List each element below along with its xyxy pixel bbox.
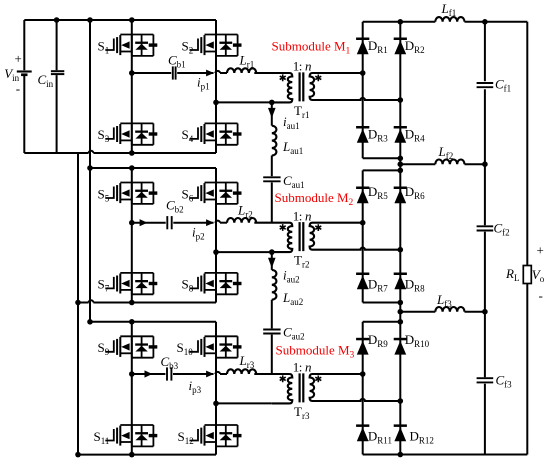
svg-text:Cf1: Cf1 [495,77,511,94]
svg-text:Lf3: Lf3 [436,292,452,309]
svg-text:Cau2: Cau2 [283,324,305,341]
node: right leg switch node M1 [213,100,219,106]
wire: rectifier 2 left leg [362,170,364,302]
diode DR3 [356,126,369,143]
svg-text:Lr1: Lr1 [239,52,255,69]
svg-text:+: + [15,51,22,66]
diode DR9 [356,338,369,355]
svg-text:Submodule M3: Submodule M3 [276,343,355,361]
svg-text:n: n [305,208,312,223]
inductor Lr2 (resonant) [227,218,256,223]
polarity dot (asterisk) Tr2 secondary [315,224,321,231]
node: Lau1 chain tap on M1 primary-bottom [269,100,275,106]
wire: M2 bridge right leg [215,168,217,303]
wire: Lf3 line from stack mid-node 2 [400,311,435,313]
wire: M1 bottom rail (input minus) with hop over plus-bus [24,152,88,154]
node: rect 2 bottom rail / right leg junction [398,300,404,306]
diode DR4 [394,126,407,143]
svg-text:Submodule M1: Submodule M1 [272,38,351,56]
wire: module M2 bottom rail with hop [78,302,89,304]
diode DR6 [394,187,407,204]
svg-text:Cb3: Cb3 [161,354,179,371]
wire: M1 primary-bottom return to right leg switch node [216,101,272,103]
inductor Lau2 (auxiliary) [272,270,277,300]
polarity dot (asterisk) Tr1 primary [280,74,286,81]
svg-text:S5: S5 [98,186,110,203]
capacitor Cb3 (blocking) [166,367,168,380]
diode DR7 [356,273,369,290]
svg-text:-: - [539,288,543,303]
node: left leg / top rail junction M2 [129,165,135,171]
svg-text:S9: S9 [98,340,110,357]
node: secondary-bottom junction on right leg (rect 3) [398,398,404,404]
svg-text::: : [299,360,303,375]
wire: M3 bridge right leg [215,322,217,455]
node: plus bus top junction [87,17,93,23]
svg-text:Lf1: Lf1 [441,1,457,18]
inductor Lf2 (filter) [435,160,464,165]
node: left leg / bottom rail junction M2 [129,300,135,306]
svg-text:DR9: DR9 [368,332,388,349]
wire: module M2 top rail [90,167,216,169]
node: Cin top junction [54,17,60,23]
wire: plus bus vertical [89,20,91,322]
wire: module M3 top rail [90,321,216,323]
wire: primary line hop over right leg M1 [220,72,227,74]
capacitor Cb1 (blocking) [172,66,174,79]
svg-text:DR2: DR2 [405,38,425,55]
inductor Lf3 (filter) [435,307,464,312]
capacitor Cf2 (output filter) [477,225,494,227]
wire: rectifier 1 top rail / output plus rail with Lf1 [363,21,436,23]
wire: M2 primary-bottom return to right leg switch node [216,251,272,253]
capacitor Cau1 (auxiliary) [263,176,280,178]
wire: auxiliary chain vertical M2-M3 [271,252,273,270]
node: right leg switch node M3 [213,401,219,407]
capacitor Cau2 (auxiliary) [263,329,280,331]
wire: M1 primary line from left leg switch node [132,72,171,74]
wire: chain between Lau1 and Cau1 [271,156,273,177]
current direction arrow on M2 primary line [140,219,148,226]
wire: rectifier 2 bottom rail [363,302,401,304]
capacitor Cin [56,20,58,70]
transistor S2 [190,35,242,56]
node: secondary-bottom junction on right leg (rect 2) [398,247,404,253]
svg-text:Lr2: Lr2 [237,202,253,219]
svg-text:DR12: DR12 [410,428,434,445]
transformer Tr3 [254,373,400,403]
svg-text:S4: S4 [182,127,194,144]
node: rect 3 bottom rail / right leg junction [398,452,404,458]
node: right leg switch node M2 [213,249,219,255]
svg-text:Tr2: Tr2 [294,253,309,270]
node: Lf2 tap on right leg [398,161,404,167]
svg-text:Lf2: Lf2 [438,144,454,161]
wire: M3 primary-bottom return to right leg switch node [216,402,272,404]
transistor S7 [105,273,157,294]
current direction arrow on M3 primary line [145,370,153,377]
transistor S8 [190,273,242,294]
node: left leg / top rail junction M1 [129,17,135,23]
polarity dot (asterisk) Tr3 primary [280,375,286,382]
svg-text:S12: S12 [178,429,194,446]
wire: M3 primary line from left leg switch node [132,373,166,375]
wire: auxiliary chain vertical M1-M2 [271,102,273,125]
voltage source Vin [23,20,25,70]
node: left leg / bottom rail junction M1 [129,150,135,156]
svg-text:-: - [16,81,20,96]
diode DR1 [356,38,369,55]
svg-text:Lau2: Lau2 [282,290,303,307]
node: left leg switch node M1 [129,70,135,76]
current arrow ip1 [206,70,214,77]
svg-text:Lr3: Lr3 [239,353,255,370]
current arrow ip2 [206,219,214,226]
current arrow iau1 [268,108,276,118]
diode DR2 [394,38,407,55]
svg-text:Lau1: Lau1 [282,139,303,156]
svg-text:S11: S11 [94,429,110,446]
wire: chain between Lau2 and Cau2 [271,300,273,329]
node: left leg switch node M3 [129,371,135,377]
transistor S6 [190,183,242,204]
wire: rectifier right leg (continuous vertical) [399,22,401,455]
wire: M2 primary line from left leg switch node [132,222,166,224]
node: rect 3 top rail / right leg junction [398,319,404,325]
svg-text:DR4: DR4 [405,126,425,143]
wire: rectifier 2 top rail [363,169,401,171]
svg-text:Submodule M2: Submodule M2 [275,190,354,208]
wire: rectifier 1 bottom rail [363,157,401,159]
capacitor Cf3 (output filter) [477,377,494,379]
wire: rectifier 3 top rail [363,321,401,323]
wire: minus bus (left vertical feeding all modules) [77,153,79,455]
current arrow iau2 [268,258,276,268]
node: Lf1 output node [482,19,488,25]
diode DR10 [394,338,407,355]
svg-text:Vo: Vo [532,267,545,284]
svg-text:iau2: iau2 [283,268,300,285]
svg-text:Tr3: Tr3 [294,404,310,421]
transistor S1 (MOSFET with body diode) [105,35,157,56]
transistor S5 (MOSFET with body diode) [105,183,157,204]
svg-text:S2: S2 [182,38,194,55]
svg-text:ip3: ip3 [189,378,202,395]
wire: rectifier 1 left leg [362,22,364,159]
transistor S10 [190,336,242,357]
capacitor Cf1 (output filter) [477,82,494,84]
transistor S11 [105,425,157,446]
inductor Lau1 (auxiliary) [272,126,277,156]
svg-text:ip2: ip2 [192,225,205,242]
capacitor Cb2 (blocking) [166,216,168,229]
wire: M3 bridge left leg [131,322,133,455]
svg-text:+: + [537,243,544,258]
transistor S3 [105,123,157,144]
node: secondary-top junction on left leg (rect 2) [360,220,366,226]
wire: output minus wire from load [526,284,528,455]
node: DR2 cathode on top rail [398,19,404,25]
node: secondary-bottom junction on right leg (rect 1) [398,97,404,103]
svg-text:DR1: DR1 [368,38,388,55]
svg-text::: : [299,208,303,223]
node: secondary-top junction on left leg (rect 1) [360,70,366,76]
wire: chain from Cau1 to M2 primary line [271,182,273,222]
svg-text:DR10: DR10 [405,332,430,349]
svg-text:n: n [305,360,312,375]
svg-text::: : [299,59,303,74]
node: left leg / top rail junction M3 [129,319,135,325]
transformer Tr2 [254,222,400,252]
node: plus bus / M2 top rail junction [87,165,93,171]
wire: input top rail (Vin+ to module M1 bridge) [24,19,216,21]
node: left leg switch node M2 [129,220,135,226]
svg-text:RL: RL [505,266,519,283]
svg-text:ip1: ip1 [197,75,210,92]
transistor S9 (MOSFET with body diode) [105,336,157,357]
wire: rectifier 3 left leg [362,322,364,455]
inductor Lf1 (filter) [435,17,464,22]
current arrow ip3 [206,371,214,378]
node: Lf3 output node [482,309,488,315]
node: rect 1 bottom rail / right leg junction [398,156,404,162]
wire: rectifier 3 bottom rail / output minus rail [363,454,528,456]
node: secondary-top junction on left leg (rect 3) [360,371,366,377]
node: Lau2 chain tap on M2 primary-bottom [269,249,275,255]
diode DR8 [394,273,407,290]
node: Lf3 tap on right leg [398,309,404,315]
wire: M1 bridge left leg [131,20,133,153]
svg-text:S10: S10 [177,340,194,357]
node: minus bus / M3 bottom rail junction [75,452,81,458]
svg-text:n: n [305,59,312,74]
svg-text:S8: S8 [182,277,194,294]
svg-text:S6: S6 [182,186,194,203]
svg-text:DR11: DR11 [368,428,392,445]
svg-text:S1: S1 [98,38,110,55]
diode DR12 [394,424,407,441]
diode DR11 [356,424,369,441]
transistor S4 [190,123,242,144]
svg-text:S7: S7 [98,277,110,294]
svg-text:DR8: DR8 [405,276,425,293]
wire: output capacitor stack vertical [484,22,486,81]
polarity dot (asterisk) Tr2 primary [280,224,286,231]
wire: M1 bridge right leg [215,20,217,153]
wire: primary line hop over right leg M2 [220,222,227,224]
svg-text:S3: S3 [98,127,110,144]
wire: chain from Cau2 to M3 primary line [271,335,273,374]
wire: Lf2 line from stack mid-node 1 [400,163,435,165]
polarity dot (asterisk) Tr1 secondary [315,75,321,82]
polarity dot (asterisk) Tr3 secondary [315,376,321,383]
transistor S12 [190,425,242,446]
svg-text:Tr1: Tr1 [294,103,309,120]
svg-text:DR7: DR7 [368,276,388,293]
diode DR5 [356,187,369,204]
svg-text:DR6: DR6 [405,184,425,201]
wire: M2 bridge left leg [131,168,133,303]
wire: primary line hop over right leg M3 [220,373,227,375]
wire: output plus wire to load [526,22,528,266]
svg-text:DR5: DR5 [368,184,388,201]
svg-text:Cf3: Cf3 [496,373,513,390]
svg-text:DR3: DR3 [368,126,388,143]
node: Lf2 output node [482,161,488,167]
resistor RL (load) [523,266,531,284]
node: minus bus / M2 bottom rail junction [75,300,81,306]
svg-text:Cau1: Cau1 [283,173,305,190]
transformer Tr1 [254,72,400,102]
node: left leg / bottom rail junction M3 [129,452,135,458]
inductor Lr3 (resonant) [227,369,256,374]
node: rect 2 top rail / right leg junction [398,168,404,174]
node: plus bus / M3 top rail junction [87,319,93,325]
inductor Lr1 (resonant) [227,68,256,73]
svg-text:Cb1: Cb1 [168,53,186,70]
svg-text:Cf2: Cf2 [494,221,510,238]
wire: module M3 bottom rail with hop [78,454,216,456]
